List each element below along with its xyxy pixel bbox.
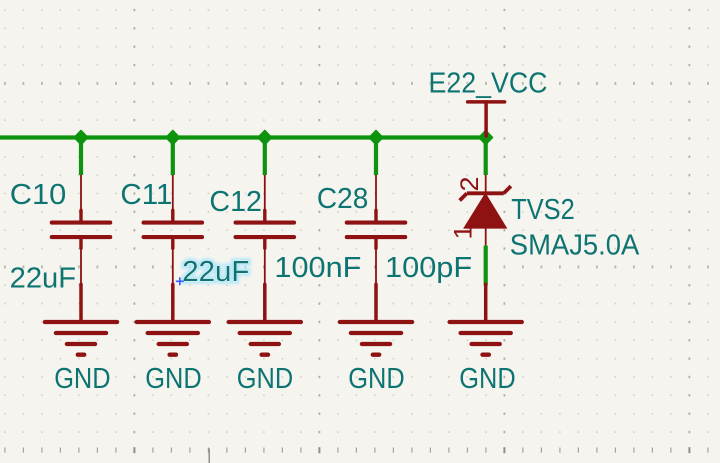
- svg-text:C28: C28: [317, 183, 368, 215]
- svg-text:GND: GND: [54, 363, 110, 395]
- junction at C10: [74, 130, 88, 144]
- svg-text:GND: GND: [348, 363, 404, 395]
- junction at C28: [369, 130, 383, 144]
- ground GND (C12): [229, 284, 301, 354]
- svg-text:C11: C11: [120, 179, 172, 211]
- sheet divider line: [208, 448, 210, 463]
- wire stub to C12: [263, 138, 267, 176]
- wire stub to C28: [374, 138, 378, 176]
- junction at C11: [166, 130, 180, 144]
- svg-text:22uF: 22uF: [182, 256, 249, 288]
- svg-text:TVS2: TVS2: [511, 194, 575, 226]
- wire stub to C11: [171, 138, 175, 176]
- svg-text:GND: GND: [237, 363, 293, 395]
- svg-text:2: 2: [456, 177, 484, 192]
- svg-text:E22_VCC: E22_VCC: [429, 68, 548, 100]
- svg-text:C12: C12: [209, 186, 262, 218]
- sheet tick row: [5, 447, 708, 453]
- capacitor C11: [144, 175, 202, 286]
- svg-text:GND: GND: [145, 363, 201, 395]
- capacitor C10: [52, 175, 110, 286]
- ground GND (C10): [45, 284, 117, 354]
- svg-text:SMAJ5.0A: SMAJ5.0A: [510, 229, 640, 261]
- value highlight glow (C11 selected): [182, 256, 249, 288]
- ground GND (C11): [137, 284, 209, 354]
- wire stub to TVS2: [484, 138, 488, 176]
- svg-text:22uF: 22uF: [10, 262, 77, 294]
- ground GND (C28): [340, 284, 412, 354]
- svg-text:C10: C10: [10, 179, 67, 211]
- wire stub to C10: [79, 138, 83, 176]
- ground GND (TVS2): [450, 284, 522, 354]
- power symbol E22_VCC: [468, 102, 505, 136]
- capacitor C12: [236, 175, 294, 286]
- wire main horizontal net: [0, 135, 486, 139]
- capacitor C28: [347, 175, 405, 286]
- junction at TVS2: [479, 130, 493, 144]
- svg-text:1: 1: [450, 225, 478, 240]
- svg-text:100nF: 100nF: [274, 252, 361, 284]
- svg-text:100pF: 100pF: [385, 252, 472, 284]
- svg-text:GND: GND: [459, 363, 515, 395]
- TVS diode TVS2: [460, 175, 511, 246]
- wire TVS2 anode to GND: [484, 246, 488, 286]
- anchor cross cursor: [176, 277, 184, 285]
- junction at C12: [258, 130, 272, 144]
